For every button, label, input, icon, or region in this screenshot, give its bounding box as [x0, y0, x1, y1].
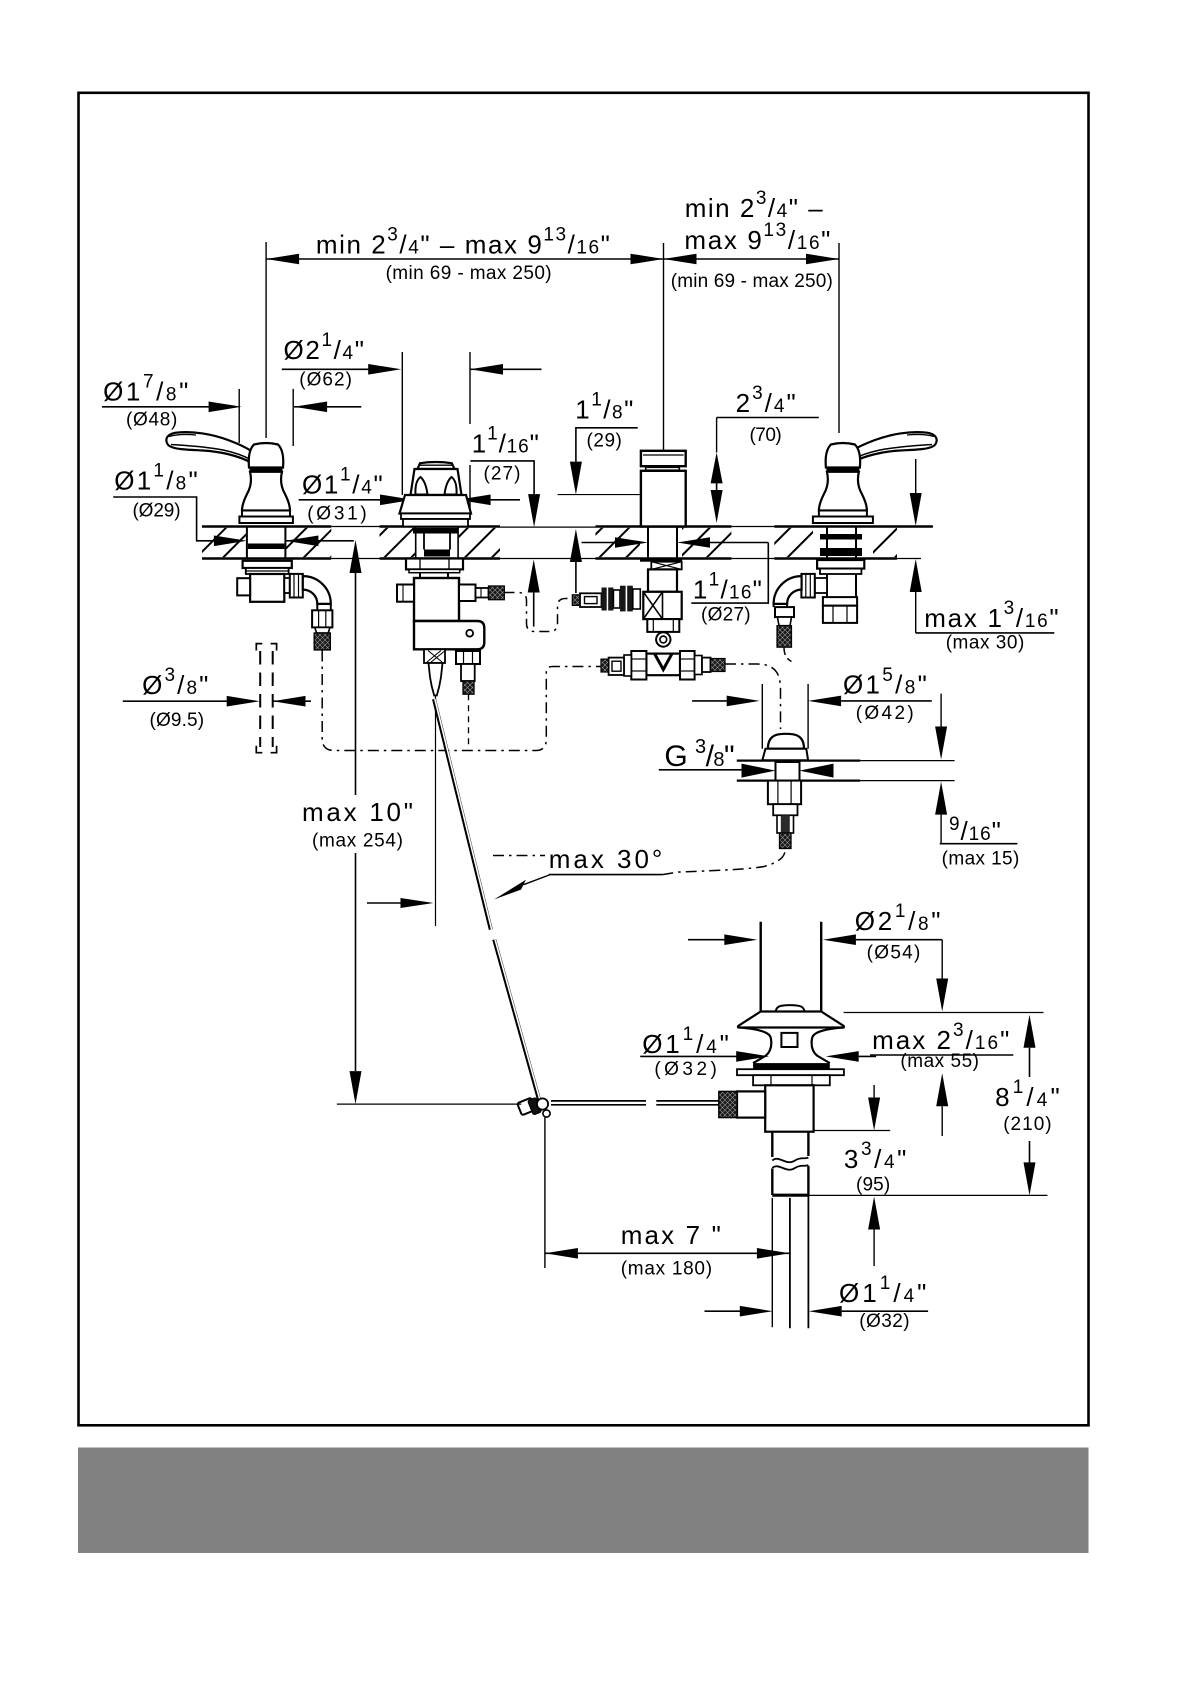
svg-text:(min 69 - max 250): (min 69 - max 250) — [671, 271, 833, 292]
center valve bottom-right fitting with braided tip — [456, 651, 480, 694]
right handle left elbow — [774, 574, 827, 626]
dimension Ø2 1/8 (Ø54) text and arrows — [688, 901, 942, 963]
svg-text:max 23/16": max 23/16" — [872, 1020, 1009, 1055]
svg-text:min 23/4" –: min 23/4" – — [685, 188, 824, 223]
max 10 vertical dimension line and arrows — [350, 540, 362, 1104]
drain lower body with wavy break — [772, 1132, 808, 1196]
left handle lever — [166, 432, 254, 462]
svg-text:(Ø54): (Ø54) — [867, 943, 921, 964]
svg-text:(Ø42): (Ø42) — [856, 703, 914, 724]
svg-text:(min 69 - max 250): (min 69 - max 250) — [386, 263, 552, 284]
dashed link from bottom-right fitting to supply route — [468, 694, 470, 749]
svg-text:(27): (27) — [484, 464, 521, 485]
drain hex nut — [753, 1075, 830, 1085]
center valve mounting nut — [406, 559, 463, 573]
center valve body and L-bracket — [414, 573, 484, 650]
svg-text:Ø11/4": Ø11/4" — [642, 1024, 729, 1059]
right-center concealed valve cap — [641, 451, 686, 470]
G 3/8 connector dome — [768, 734, 804, 749]
svg-text:Ø21/4": Ø21/4" — [284, 330, 365, 365]
left valve body — [237, 574, 284, 602]
pop-up rod (angled) — [434, 699, 541, 1103]
routing dash-dot from max30 label to connector tip — [662, 849, 785, 875]
svg-text:33/4": 33/4" — [844, 1139, 907, 1174]
right valve cross-hatched adapter box — [651, 562, 681, 570]
Ø3/8 dashed supply tube — [256, 644, 276, 753]
extension line drain body left edge — [771, 1198, 773, 1327]
svg-text:(95): (95) — [856, 1175, 890, 1196]
tee left collar — [631, 651, 646, 680]
right valve lower adapter — [647, 619, 679, 632]
center valve right port with adapter and braided tip — [459, 585, 504, 602]
right handle braided hose — [777, 626, 791, 647]
extension lines for Ø62 (escutcheon) — [402, 352, 470, 509]
right valve body below deck — [648, 569, 677, 591]
center valve left stub port — [397, 585, 414, 602]
supply routing dash-dot line from left valve to tee — [322, 651, 601, 751]
drain side port knurled end — [719, 1091, 737, 1117]
drain upper body — [765, 1085, 813, 1131]
svg-text:max 7 ": max 7 " — [621, 1220, 721, 1250]
svg-text:(Ø27): (Ø27) — [701, 605, 751, 626]
deck section center — [380, 527, 501, 559]
svg-text:(210): (210) — [1003, 1114, 1051, 1135]
center valve bottom-left fitting — [424, 649, 445, 663]
svg-text:Ø11/8": Ø11/8" — [114, 461, 197, 496]
dimension D1 min 2 3/4 - max 9 13/16 (left span) text — [316, 225, 610, 284]
extension line: left handle centerline — [265, 242, 267, 438]
max 10 dimension text — [302, 797, 413, 852]
svg-text:(max 55): (max 55) — [900, 1051, 979, 1072]
left handle shank through deck — [247, 527, 286, 559]
dimension Ø2 1/4 (Ø62) text and leader — [282, 330, 542, 390]
left valve braided hose end — [314, 633, 330, 650]
side port reference line — [814, 1130, 891, 1132]
drain tailpipe — [790, 1195, 809, 1328]
pop-up rod knob — [429, 663, 443, 696]
svg-text:min 23/4" – max 913/16": min 23/4" – max 913/16" — [316, 225, 610, 260]
tee connector body with V outlet — [646, 654, 680, 676]
dimension 8 1/4 (210) text and arrows — [995, 1015, 1060, 1196]
right handle hose tail curve — [784, 647, 792, 661]
deck section left (hatched counter cross-section) — [202, 527, 331, 559]
max 10 lower reference line — [337, 1103, 521, 1105]
svg-text:(max 30): (max 30) — [946, 633, 1025, 654]
page frame — [79, 93, 1089, 1426]
dimension 1 1/16 (27) text with bracket leader and deck arrows — [470, 424, 540, 627]
CL reference line — [558, 494, 655, 496]
svg-text:Ø11/4": Ø11/4" — [302, 465, 383, 500]
routing dash-dot from tee to connector — [725, 664, 781, 729]
rod pivot clevis — [517, 1097, 550, 1117]
2 3/4 (70) double arrow at valve — [711, 418, 723, 524]
tee right hose fitting — [695, 656, 725, 675]
left handle body — [239, 443, 293, 523]
gray footer bar — [78, 1448, 1089, 1554]
right valve ball joint — [656, 632, 670, 646]
svg-text:(Ø31): (Ø31) — [307, 504, 367, 525]
dimension Ø1 1/4 (Ø32) drain neck text and arrows — [640, 1024, 876, 1080]
svg-text:(70): (70) — [749, 425, 781, 446]
dimension Ø1 1/4 (Ø32) tailpipe text and arrows — [705, 1273, 929, 1332]
svg-text:Ø21/8": Ø21/8" — [855, 901, 941, 936]
dimension Ø3/8 (Ø9.5) text and arrows — [123, 665, 311, 731]
left valve locknut below deck — [243, 561, 292, 574]
max 30 degree label with leaders — [493, 844, 662, 900]
svg-text:(Ø29): (Ø29) — [132, 501, 180, 522]
svg-text:11/16": 11/16" — [693, 570, 762, 605]
dimension 2 3/4 (70) text — [717, 383, 819, 446]
tee right collar — [680, 651, 695, 680]
svg-text:max 913/16": max 913/16" — [684, 220, 830, 255]
right handle shank and bottom fittings — [823, 574, 857, 623]
drain bottom reference line — [808, 1194, 1047, 1196]
vertical reference line below rod knob — [435, 696, 437, 927]
svg-text:81/4": 81/4" — [995, 1077, 1060, 1112]
svg-text:(Ø32): (Ø32) — [859, 1311, 909, 1332]
right handle locknut — [817, 560, 864, 574]
right valve X-valve block — [643, 592, 681, 619]
dimension D1 line and arrows — [266, 254, 663, 265]
dimension max 1 3/16 (max 30) text and leader — [910, 459, 1059, 654]
deck continuation thin lines — [331, 527, 921, 559]
dimension 3 3/4 (95) text and arrows — [844, 1085, 907, 1266]
dimension Ø1 5/8 (Ø42) text and arrows — [692, 665, 932, 749]
extension line: center valve centerline — [663, 243, 665, 450]
svg-text:max 30°: max 30° — [549, 844, 663, 874]
svg-text:(max 180): (max 180) — [621, 1259, 712, 1280]
svg-text:Ø11/4": Ø11/4" — [839, 1273, 926, 1308]
svg-text:(max 254): (max 254) — [312, 831, 403, 852]
center cross-handle cap — [418, 462, 455, 469]
svg-text:(Ø48): (Ø48) — [126, 410, 177, 431]
center cross-handle body with prongs — [411, 469, 462, 495]
tee left hose fitting — [601, 655, 631, 676]
svg-text:11/16": 11/16" — [472, 424, 539, 459]
right handle shank through deck — [820, 527, 862, 559]
dimension D2 line and arrows — [664, 254, 840, 265]
svg-text:G 3/8": G 3/8" — [664, 736, 734, 773]
right valve left hose assembly — [572, 586, 640, 612]
G 3/8 connector hex and stem — [768, 781, 801, 849]
drain flare — [738, 1012, 844, 1028]
right-center concealed valve body — [641, 471, 686, 527]
pop-up lever arm — [551, 1101, 720, 1105]
dimension Ø1 1/4 (Ø31) text and leader — [299, 465, 520, 525]
dimension Ø1 1/8 (Ø29) text and stepped leader — [113, 461, 354, 546]
center valve gasket and shank through deck — [413, 527, 458, 559]
drain side port boss — [737, 1091, 765, 1117]
right handle lever — [849, 432, 937, 462]
deck section right-handle — [774, 527, 933, 559]
dimension D2 min 2 3/4 - max 9 13/16 (right span) text — [671, 188, 833, 292]
left valve elbow — [303, 576, 331, 604]
drain plug dome — [776, 1005, 805, 1015]
right handle body — [813, 443, 873, 523]
dimension 1 1/16 (Ø27) text with bracket — [582, 537, 769, 625]
svg-text:max 13/16": max 13/16" — [924, 598, 1058, 633]
dimension Ø1 7/8 (Ø48) text and leader — [102, 372, 361, 431]
dimension 9/16 (max 15) text and arrows — [860, 694, 1019, 870]
svg-text:(Ø32): (Ø32) — [654, 1059, 717, 1080]
drain top tube — [761, 922, 822, 1012]
dimension max 7 (max 180) text and arrows — [545, 1220, 790, 1280]
dimension max 2 3/16 (max 55) text and arrows — [870, 940, 1013, 1136]
svg-text:Ø3/8": Ø3/8" — [142, 665, 208, 700]
drain neck with square window — [740, 1028, 843, 1064]
30 degree angle arrow to vertical reference — [367, 898, 434, 908]
left valve right port and hex — [284, 574, 303, 598]
deck section right-valve — [596, 527, 732, 559]
svg-text:9/16": 9/16" — [949, 814, 1001, 846]
svg-text:(max 15): (max 15) — [942, 849, 1020, 870]
svg-text:11/8": 11/8" — [575, 390, 633, 425]
left valve elbow tube and hex fitting — [312, 604, 332, 633]
flare reference line — [844, 1012, 1044, 1014]
G 3/8 connector flange — [737, 761, 861, 781]
svg-text:23/4": 23/4" — [736, 383, 796, 418]
right valve shank through deck and gasket — [640, 527, 682, 562]
svg-text:(Ø9.5): (Ø9.5) — [150, 710, 205, 731]
center valve skirt and escutcheon — [400, 495, 472, 527]
dimension 1 1/8 (29) text with leader, CL arrows — [570, 390, 638, 593]
dimension G 3/8 text — [659, 736, 751, 773]
G 3/8 connector ring — [762, 749, 808, 761]
extension line: right handle centerline — [838, 243, 840, 433]
svg-text:(Ø62): (Ø62) — [299, 370, 352, 391]
svg-text:(29): (29) — [587, 431, 622, 452]
svg-text:Ø15/8": Ø15/8" — [843, 665, 927, 700]
routing dash-dot S-link center valve to right valve — [505, 593, 573, 632]
extension lines for Ø48 (handle base) — [239, 389, 293, 446]
svg-text:max 10": max 10" — [302, 797, 413, 827]
svg-text:Ø17/8": Ø17/8" — [103, 372, 188, 407]
extension line below pivot — [544, 1118, 546, 1269]
drain gasket — [753, 1063, 830, 1069]
drain flange — [737, 1069, 844, 1075]
